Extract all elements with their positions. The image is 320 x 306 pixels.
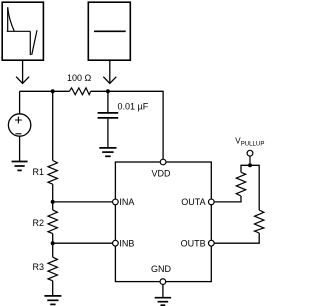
pin INB bbox=[113, 240, 119, 246]
resistor R1 bbox=[48, 161, 57, 185]
IC U1 body bbox=[115, 162, 211, 282]
ground under U1 bbox=[155, 298, 171, 306]
signal generator SG1 box (AC-coupled pulse waveform) bbox=[2, 2, 43, 60]
resistor R3 bbox=[48, 257, 57, 281]
wire node B to R3 bbox=[52, 243, 54, 257]
resistor R4 100 ohm bbox=[69, 88, 90, 95]
pin OUTA bbox=[208, 199, 214, 205]
wire R1 to node A bbox=[52, 184, 54, 202]
pin INA bbox=[113, 199, 119, 205]
svg-text:VDD: VDD bbox=[151, 169, 171, 179]
arrow from SG2 down to node VDD rail bbox=[103, 61, 116, 84]
wire R6 bottom to OUTB bbox=[214, 233, 259, 243]
svg-text:R3: R3 bbox=[33, 262, 45, 272]
node junction at C1 bbox=[106, 89, 110, 93]
wire divider top bbox=[52, 91, 54, 160]
wire Vpullup node to R6 top bbox=[250, 165, 259, 210]
wire node B to INB bbox=[53, 242, 113, 244]
svg-text:R2: R2 bbox=[33, 218, 45, 228]
pin GND bbox=[160, 279, 166, 285]
wire V1 bottom to ground bbox=[19, 136, 21, 161]
resistor R6 (pullup B) bbox=[255, 210, 264, 233]
svg-text:PULLUP: PULLUP bbox=[241, 140, 265, 147]
svg-text:INB: INB bbox=[119, 239, 134, 249]
svg-text:GND: GND bbox=[151, 264, 172, 274]
svg-text:0.01 µF: 0.01 µF bbox=[118, 101, 149, 111]
node junction A (INA tap) bbox=[51, 200, 55, 204]
node junction Vpullup bbox=[248, 163, 252, 167]
pin VDD bbox=[160, 159, 166, 165]
wire R2 to node B bbox=[52, 234, 54, 244]
wire OUTA to R5 bbox=[214, 196, 241, 202]
signal generator SG2 box (DC level waveform) bbox=[88, 2, 130, 60]
wire node A to INA bbox=[53, 201, 113, 203]
resistor R2 bbox=[48, 210, 57, 234]
node junction at R-divider tap bbox=[51, 89, 55, 93]
node junction B (INB tap) bbox=[51, 241, 55, 245]
wire R5 top to Vpullup node bbox=[241, 165, 250, 172]
wire R3 to ground bbox=[52, 281, 54, 296]
wire node A to R2 bbox=[52, 202, 54, 210]
wire rail right segment to VDD bbox=[91, 91, 163, 159]
svg-text:INA: INA bbox=[119, 197, 134, 207]
svg-text:OUTB: OUTB bbox=[181, 239, 206, 249]
pin OUTB bbox=[208, 240, 214, 246]
ground under V1 bbox=[12, 162, 28, 171]
wire V1 top to rail bbox=[19, 91, 21, 114]
wire rail left segment bbox=[20, 90, 70, 92]
voltage source V1 bbox=[8, 114, 30, 136]
resistor R5 (pullup A) bbox=[236, 172, 245, 196]
terminal Vpullup bbox=[247, 150, 253, 163]
capacitor C1 0.01 uF bbox=[98, 91, 119, 147]
arrow from SG1 down to node IN bbox=[16, 61, 29, 84]
svg-text:OUTA: OUTA bbox=[181, 197, 205, 207]
ground under R3 bbox=[44, 296, 61, 305]
svg-text:100 Ω: 100 Ω bbox=[67, 73, 92, 83]
ground under C1 bbox=[99, 148, 116, 156]
svg-text:R1: R1 bbox=[33, 167, 45, 177]
wire GND pin to ground bbox=[162, 284, 164, 297]
